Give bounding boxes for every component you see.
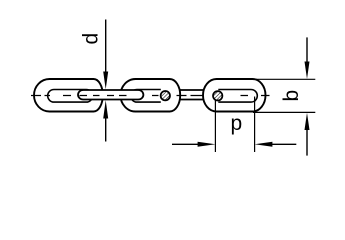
link L3 slot — [131, 90, 161, 103]
dimension p: right extension line — [254, 97, 256, 153]
dimension p: left line — [172, 143, 199, 145]
dimension p: left arrowhead — [198, 142, 216, 147]
dimension p: left extension line — [214, 101, 216, 153]
dimension b: lower line — [306, 127, 308, 156]
wire cross-section circle in L3 (hatched) — [161, 91, 170, 100]
dimension d: upper arrowhead — [103, 72, 108, 90]
link L3 outer (middle flat link) — [121, 79, 181, 112]
bar B2 (edge-on link between L3 and L5, right end hidden behind L5) — [180, 90, 204, 100]
link L5 outer (right flat link) — [203, 79, 266, 112]
dimension b: bottom extension line — [253, 111, 315, 113]
dimension p: right line — [271, 143, 296, 145]
dimension b: upper line — [306, 37, 308, 64]
centerline (axis of chain, hand-placed dashes) — [31, 95, 270, 97]
dimension d: lower arrowhead — [103, 100, 108, 118]
dimension d: lower line — [105, 115, 107, 142]
link L1 slot — [48, 90, 93, 103]
wire cross-section circle in L5 (hatched) — [213, 91, 222, 100]
dimension b: upper arrowhead — [305, 62, 310, 80]
bar B1 (edge-on link between L1 and L3, drawn over the link end arcs) — [78, 90, 143, 100]
svg-text:p: p — [231, 112, 243, 135]
svg-text:b: b — [280, 90, 303, 102]
link L1 outer (left flat link) — [34, 79, 103, 112]
dimension d: upper line — [105, 20, 107, 76]
dimension b: lower arrowhead — [305, 113, 310, 130]
svg-text:d: d — [80, 33, 103, 45]
dimension b: top extension line — [253, 78, 315, 80]
link L5 slot — [218, 90, 257, 103]
dimension p: right arrowhead — [255, 142, 273, 147]
